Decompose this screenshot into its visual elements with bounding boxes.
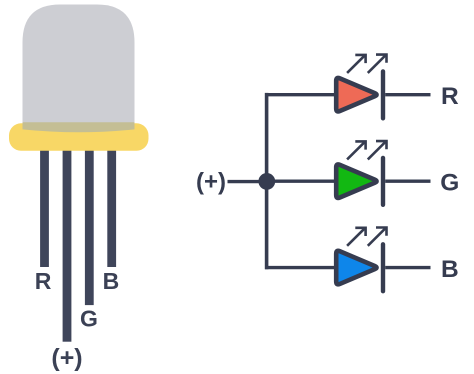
- svg-text:R: R: [441, 83, 459, 110]
- svg-text:R: R: [35, 268, 52, 294]
- wire to blue LED anode: [265, 266, 337, 269]
- blue LED D3 triangle: [336, 251, 376, 285]
- dome bottom overlap on flange: [23, 122, 135, 132]
- wire from blue LED cathode: [385, 266, 430, 269]
- wire to green LED anode: [265, 179, 337, 182]
- svg-text:G: G: [80, 306, 98, 332]
- leg (+) common anode pin: [63, 140, 72, 342]
- svg-text:(+): (+): [196, 168, 226, 195]
- epoxy dome: [23, 5, 135, 123]
- wire from red LED cathode: [385, 93, 430, 96]
- red LED D1 triangle: [336, 78, 376, 112]
- LED base flange: [9, 123, 149, 151]
- junction node: [258, 173, 275, 190]
- svg-text:B: B: [441, 256, 459, 283]
- red LED cathode bar: [381, 71, 385, 118]
- wire to red LED anode: [265, 93, 337, 96]
- green LED emission arrow 2: [368, 141, 387, 159]
- blue LED emission arrow 1: [347, 228, 366, 246]
- blue LED cathode bar: [381, 244, 385, 291]
- leg G (green cathode pin): [85, 140, 94, 305]
- green LED emission arrow 1: [347, 141, 366, 159]
- vertical bus wire: [265, 93, 269, 269]
- svg-text:G: G: [440, 169, 459, 196]
- green LED D2 triangle: [336, 164, 376, 198]
- blue LED emission arrow 2: [368, 228, 387, 246]
- svg-text:B: B: [103, 268, 120, 294]
- leg B (blue cathode pin): [107, 140, 116, 267]
- svg-text:(+): (+): [51, 344, 82, 372]
- green LED cathode bar: [381, 158, 385, 205]
- wire from green LED cathode: [385, 179, 430, 182]
- red LED emission arrow 2: [368, 55, 387, 73]
- leg R (red cathode pin): [40, 140, 49, 267]
- wire from (+) to junction: [228, 180, 268, 183]
- red LED emission arrow 1: [347, 55, 366, 73]
